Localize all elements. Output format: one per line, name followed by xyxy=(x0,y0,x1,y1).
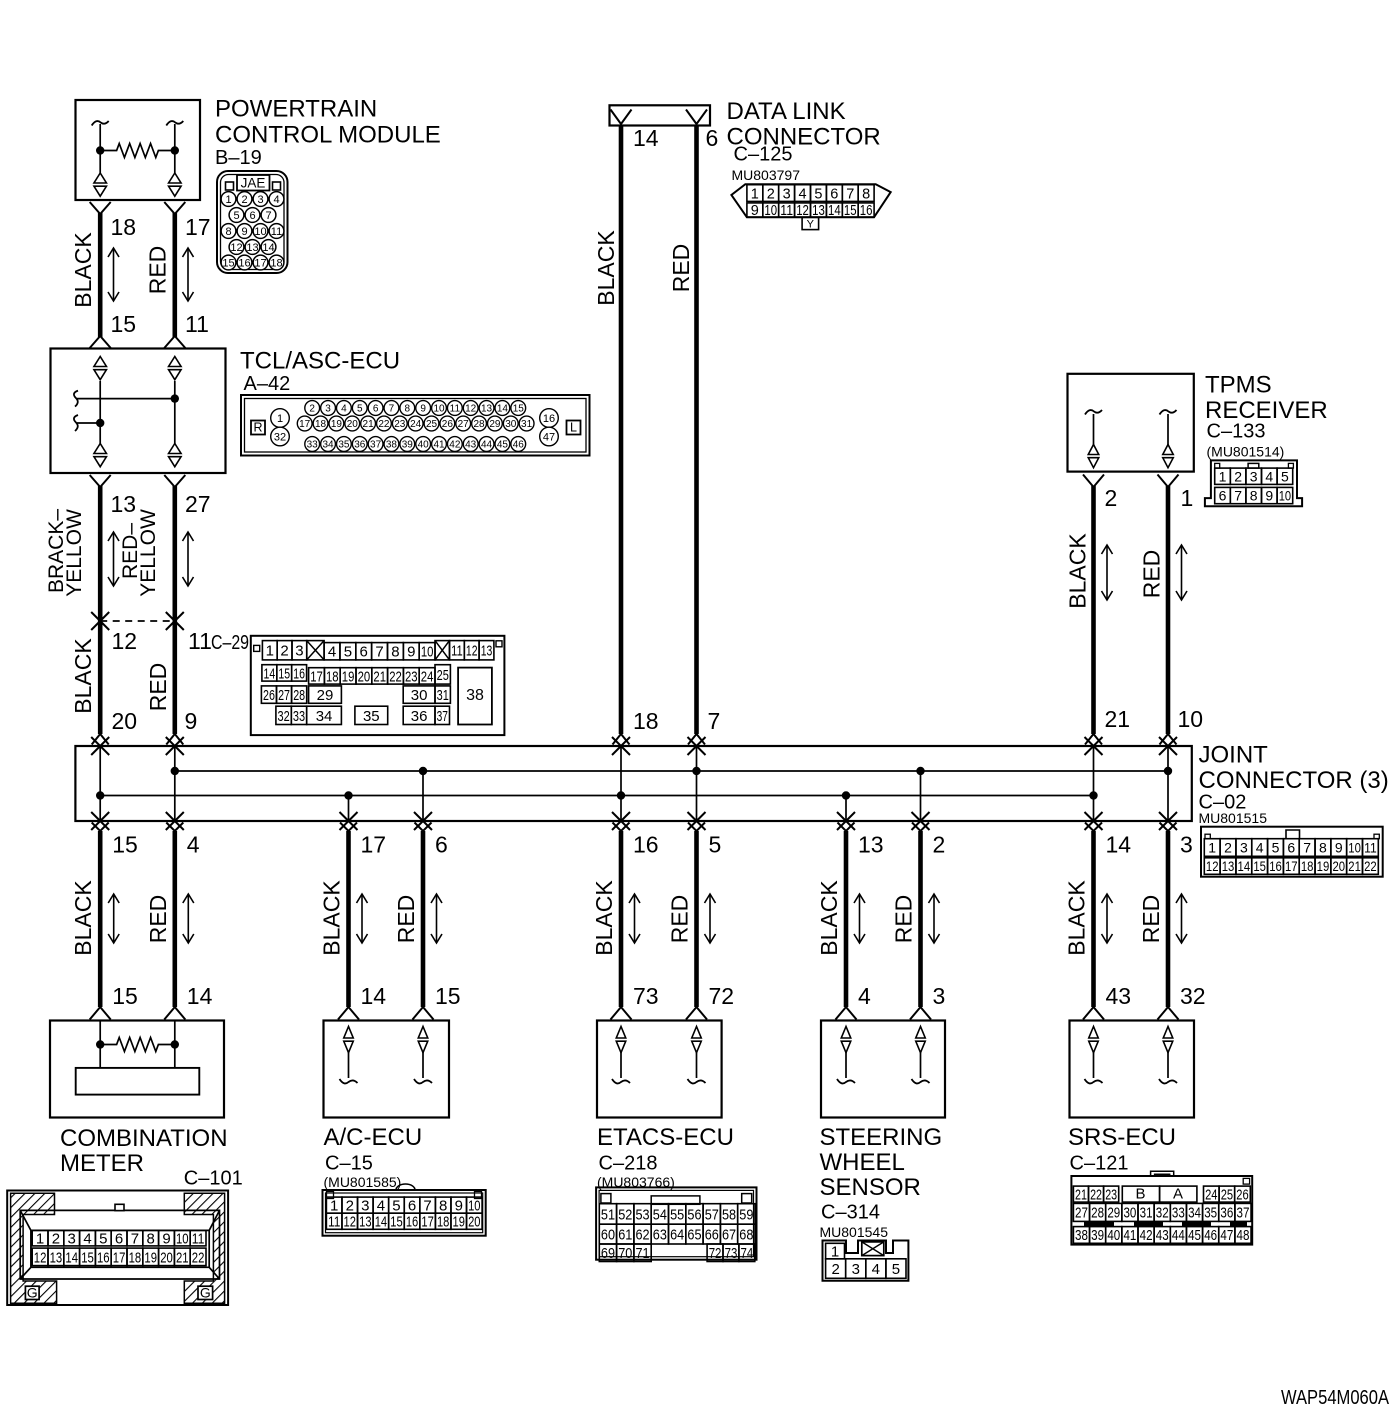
svg-text:33: 33 xyxy=(293,708,305,725)
svg-text:53: 53 xyxy=(636,1206,650,1223)
svg-text:BLACK: BLACK xyxy=(70,880,96,956)
terminating resistor (meter) xyxy=(96,1040,104,1048)
svg-text:67: 67 xyxy=(722,1227,736,1244)
svg-text:3: 3 xyxy=(295,643,303,660)
svg-text:70: 70 xyxy=(618,1245,632,1262)
svg-text:36: 36 xyxy=(1220,1206,1233,1222)
svg-text:28: 28 xyxy=(473,419,485,430)
svg-text:C–125: C–125 xyxy=(734,144,793,166)
svg-text:23: 23 xyxy=(394,419,406,430)
PCM internal terminal 17 xyxy=(166,121,183,126)
svg-text:15: 15 xyxy=(222,257,234,269)
svg-text:7: 7 xyxy=(708,708,721,734)
svg-text:5: 5 xyxy=(344,644,352,661)
svg-text:8: 8 xyxy=(1250,488,1258,504)
wire BLACK joint 17 to 14 xyxy=(340,823,357,832)
svg-text:DATA LINK: DATA LINK xyxy=(727,98,846,125)
svg-text:13: 13 xyxy=(111,491,137,517)
svg-text:9: 9 xyxy=(407,644,415,661)
svg-text:32: 32 xyxy=(1180,983,1206,1009)
svg-text:13: 13 xyxy=(359,1214,371,1231)
svg-text:17: 17 xyxy=(113,1249,126,1266)
svg-text:10: 10 xyxy=(468,1198,480,1215)
svg-text:12: 12 xyxy=(112,628,138,654)
DLC internal terminal 6 xyxy=(686,110,707,125)
svg-text:G: G xyxy=(200,1284,211,1300)
svg-text:37: 37 xyxy=(437,708,448,725)
svg-text:(MU801585): (MU801585) xyxy=(324,1174,402,1190)
svg-text:21: 21 xyxy=(1105,706,1131,732)
svg-text:8: 8 xyxy=(439,1198,447,1215)
svg-text:11: 11 xyxy=(271,226,282,238)
svg-text:21: 21 xyxy=(373,668,386,685)
svg-text:R: R xyxy=(253,421,262,435)
direction arrows xyxy=(854,894,865,943)
svg-text:MU801515: MU801515 xyxy=(1199,810,1268,826)
direction arrows xyxy=(108,894,119,943)
svg-text:12: 12 xyxy=(465,404,477,415)
svg-text:40: 40 xyxy=(418,440,430,451)
wire RED pin17 to pin11 xyxy=(164,202,185,214)
svg-text:4: 4 xyxy=(1256,840,1264,856)
svg-text:ETACS-ECU: ETACS-ECU xyxy=(597,1124,734,1151)
svg-text:JAE: JAE xyxy=(241,176,266,191)
svg-text:12: 12 xyxy=(466,643,478,660)
steering wheel sensor box xyxy=(821,1021,945,1118)
TPMS receiver C-133 box xyxy=(1068,374,1194,472)
svg-text:55: 55 xyxy=(670,1206,684,1223)
TCL bottom terminals xyxy=(94,444,107,454)
svg-text:5: 5 xyxy=(709,832,722,858)
connector drawing C-133 (10-pin) xyxy=(1205,460,1302,506)
svg-text:33: 33 xyxy=(307,440,319,451)
TCL/ASC-ECU A-42 box xyxy=(51,349,226,474)
svg-text:42: 42 xyxy=(449,440,461,451)
connector drawing C-101 (22-pin with shell) xyxy=(7,1191,228,1306)
svg-text:8: 8 xyxy=(405,404,411,415)
CAN bus line (upper / RED) xyxy=(175,770,1168,772)
svg-text:7: 7 xyxy=(131,1231,139,1248)
svg-text:5: 5 xyxy=(99,1231,107,1248)
svg-text:73: 73 xyxy=(633,983,659,1009)
svg-text:A: A xyxy=(1173,1186,1183,1203)
svg-text:L: L xyxy=(570,421,577,435)
svg-text:31: 31 xyxy=(521,419,533,430)
PCM internal terminal 18 xyxy=(92,121,109,126)
svg-text:39: 39 xyxy=(1091,1228,1104,1244)
svg-text:20: 20 xyxy=(347,419,359,430)
svg-text:21: 21 xyxy=(176,1249,189,1266)
svg-text:2: 2 xyxy=(933,832,946,858)
svg-text:17: 17 xyxy=(254,257,266,269)
svg-text:35: 35 xyxy=(363,708,380,725)
TCL internal terminal top-right xyxy=(169,357,182,367)
svg-text:JOINT: JOINT xyxy=(1199,742,1269,769)
svg-text:12: 12 xyxy=(1206,858,1219,874)
ETACS-ECU internal terminals xyxy=(616,1027,626,1039)
svg-text:19: 19 xyxy=(453,1214,465,1231)
svg-text:39: 39 xyxy=(402,440,414,451)
svg-text:1: 1 xyxy=(1181,485,1194,511)
svg-text:10: 10 xyxy=(764,203,777,219)
DLC internal terminal 14 xyxy=(611,110,632,125)
svg-text:13: 13 xyxy=(1222,858,1235,874)
svg-text:5: 5 xyxy=(892,1261,900,1278)
svg-text:15: 15 xyxy=(81,1249,94,1266)
svg-text:17: 17 xyxy=(185,214,211,240)
svg-text:4: 4 xyxy=(341,404,347,415)
svg-text:RED: RED xyxy=(393,895,419,944)
svg-text:8: 8 xyxy=(225,226,231,238)
direction arrow (pair 1 upper) xyxy=(108,248,119,301)
svg-text:57: 57 xyxy=(705,1206,719,1223)
svg-text:66: 66 xyxy=(705,1227,719,1244)
svg-text:16: 16 xyxy=(238,257,250,269)
svg-text:9: 9 xyxy=(1265,488,1273,504)
svg-text:2: 2 xyxy=(1224,840,1232,856)
svg-text:23: 23 xyxy=(405,668,418,685)
svg-text:45: 45 xyxy=(1188,1228,1201,1244)
svg-text:28: 28 xyxy=(293,687,305,704)
bus junction dots upper xyxy=(171,767,179,775)
svg-text:(MU801514): (MU801514) xyxy=(1207,444,1285,460)
svg-text:10: 10 xyxy=(1348,840,1361,856)
svg-text:2: 2 xyxy=(1234,468,1242,484)
svg-text:Y: Y xyxy=(807,218,815,230)
svg-text:19: 19 xyxy=(1317,858,1330,874)
svg-text:RED: RED xyxy=(145,246,171,295)
wire RED pin1 to joint 10 xyxy=(1158,475,1179,488)
connector drawing C-15 (20-pin) xyxy=(323,1190,486,1236)
svg-text:2: 2 xyxy=(767,186,775,202)
svg-text:BLACK: BLACK xyxy=(70,638,96,714)
svg-text:14: 14 xyxy=(1238,858,1251,874)
C-29 slot 38 xyxy=(458,668,492,725)
svg-text:5: 5 xyxy=(392,1198,400,1215)
svg-text:22: 22 xyxy=(378,419,390,430)
svg-text:15: 15 xyxy=(112,983,138,1009)
svg-text:8: 8 xyxy=(391,644,399,661)
svg-text:11: 11 xyxy=(192,1231,205,1248)
svg-text:6: 6 xyxy=(1287,840,1295,856)
svg-text:STEERING: STEERING xyxy=(820,1124,943,1151)
svg-text:4: 4 xyxy=(858,983,871,1009)
svg-text:44: 44 xyxy=(481,440,493,451)
wire RED pin6 to joint 7 xyxy=(694,126,699,735)
svg-text:11: 11 xyxy=(451,643,463,660)
svg-text:19: 19 xyxy=(342,668,355,685)
bus junction dots lower xyxy=(96,791,104,799)
svg-text:3: 3 xyxy=(783,186,791,202)
svg-text:RED: RED xyxy=(1139,550,1165,599)
svg-text:10: 10 xyxy=(254,226,266,238)
svg-text:46: 46 xyxy=(1204,1228,1217,1244)
svg-text:6: 6 xyxy=(249,210,255,222)
svg-text:29: 29 xyxy=(489,419,501,430)
svg-text:9: 9 xyxy=(751,203,759,219)
svg-text:1: 1 xyxy=(330,1198,338,1215)
svg-text:MU801545: MU801545 xyxy=(820,1224,889,1240)
svg-text:26: 26 xyxy=(442,419,454,430)
svg-text:20: 20 xyxy=(358,668,371,685)
svg-text:BLACK: BLACK xyxy=(1064,880,1090,956)
svg-text:62: 62 xyxy=(636,1227,650,1244)
svg-text:TPMS: TPMS xyxy=(1205,372,1272,399)
svg-text:35: 35 xyxy=(338,440,350,451)
direction arrow (pair 1 middle) xyxy=(108,532,119,586)
svg-text:14: 14 xyxy=(828,203,841,219)
TPMS internal terminal 2 xyxy=(1085,410,1102,415)
svg-text:15: 15 xyxy=(111,311,137,337)
svg-text:43: 43 xyxy=(465,440,477,451)
svg-text:24: 24 xyxy=(410,419,422,430)
connector drawing C-121 (48-pin) xyxy=(1071,1176,1252,1245)
svg-text:6: 6 xyxy=(360,644,368,661)
svg-text:2: 2 xyxy=(241,194,247,206)
svg-text:14: 14 xyxy=(65,1249,78,1266)
svg-text:WHEEL: WHEEL xyxy=(820,1149,905,1176)
svg-text:22: 22 xyxy=(389,668,402,685)
steering wheel sensor internal terminals xyxy=(841,1027,851,1039)
svg-text:4: 4 xyxy=(799,186,807,202)
wire BLACK pin2 to joint 21 xyxy=(1083,475,1104,488)
svg-text:G: G xyxy=(27,1284,38,1300)
svg-text:1: 1 xyxy=(277,413,283,425)
meter internal block xyxy=(76,1068,200,1095)
combination meter box xyxy=(50,1021,224,1118)
svg-text:3: 3 xyxy=(257,194,263,206)
svg-text:68: 68 xyxy=(739,1227,753,1244)
svg-text:56: 56 xyxy=(687,1206,701,1223)
svg-text:64: 64 xyxy=(670,1227,684,1244)
svg-text:RED: RED xyxy=(667,895,693,944)
svg-text:25: 25 xyxy=(426,419,438,430)
svg-text:8: 8 xyxy=(147,1231,155,1248)
svg-text:7: 7 xyxy=(389,404,395,415)
svg-text:18: 18 xyxy=(633,708,659,734)
connector drawing C-218 (74-pin) xyxy=(596,1187,756,1259)
svg-text:69: 69 xyxy=(601,1245,615,1262)
svg-text:16: 16 xyxy=(406,1214,418,1231)
svg-text:63: 63 xyxy=(653,1227,667,1244)
svg-text:2: 2 xyxy=(346,1198,354,1215)
svg-text:31: 31 xyxy=(437,687,449,704)
svg-text:10: 10 xyxy=(1178,706,1204,732)
svg-text:72: 72 xyxy=(709,1245,722,1262)
svg-text:10: 10 xyxy=(421,644,434,661)
svg-text:POWERTRAIN: POWERTRAIN xyxy=(215,96,377,123)
svg-text:43: 43 xyxy=(1156,1228,1169,1244)
svg-text:1: 1 xyxy=(36,1231,44,1248)
C-101 ground tab G right xyxy=(198,1286,213,1299)
C-101 shell body xyxy=(20,1210,219,1279)
svg-text:5: 5 xyxy=(233,210,239,222)
svg-text:4: 4 xyxy=(273,194,279,206)
svg-text:18: 18 xyxy=(326,668,339,685)
svg-text:30: 30 xyxy=(411,687,428,704)
svg-text:26: 26 xyxy=(263,687,275,704)
svg-text:18: 18 xyxy=(111,214,137,240)
svg-text:SRS-ECU: SRS-ECU xyxy=(1068,1124,1176,1151)
svg-text:20: 20 xyxy=(160,1249,173,1266)
svg-text:27: 27 xyxy=(185,491,211,517)
svg-text:7: 7 xyxy=(1303,840,1311,856)
wire BLACK pin18 to pin15 xyxy=(90,202,111,214)
svg-text:24: 24 xyxy=(1205,1187,1217,1203)
svg-text:5: 5 xyxy=(814,186,822,202)
svg-text:19: 19 xyxy=(144,1249,157,1266)
svg-text:40: 40 xyxy=(1107,1228,1120,1244)
svg-text:6: 6 xyxy=(435,832,448,858)
wire RED joint 2 to 3 xyxy=(912,823,929,832)
svg-text:20: 20 xyxy=(112,708,138,734)
svg-text:21: 21 xyxy=(363,419,375,430)
joint connector entry marks pair1 xyxy=(92,734,109,745)
svg-text:38: 38 xyxy=(386,440,398,451)
svg-text:2: 2 xyxy=(280,643,288,660)
svg-text:60: 60 xyxy=(601,1227,615,1244)
svg-text:18: 18 xyxy=(315,419,327,430)
svg-text:42: 42 xyxy=(1140,1228,1153,1244)
svg-text:27: 27 xyxy=(458,419,470,430)
svg-text:18: 18 xyxy=(270,257,282,269)
svg-text:34: 34 xyxy=(322,440,334,451)
svg-text:45: 45 xyxy=(497,440,509,451)
direction arrows xyxy=(357,894,368,943)
svg-text:9: 9 xyxy=(455,1198,463,1215)
joint connector (3) C-02 box xyxy=(75,746,1191,821)
svg-text:4: 4 xyxy=(187,832,200,858)
svg-text:14: 14 xyxy=(262,242,274,254)
svg-text:31: 31 xyxy=(1140,1206,1153,1222)
svg-text:32: 32 xyxy=(1156,1206,1169,1222)
svg-text:38: 38 xyxy=(1075,1228,1088,1244)
svg-text:10: 10 xyxy=(433,404,445,415)
svg-text:C–218: C–218 xyxy=(599,1153,658,1175)
svg-text:59: 59 xyxy=(739,1206,753,1223)
svg-text:6: 6 xyxy=(706,125,719,151)
svg-text:14: 14 xyxy=(187,983,213,1009)
svg-text:4: 4 xyxy=(83,1231,91,1248)
svg-text:41: 41 xyxy=(1123,1228,1136,1244)
svg-text:9: 9 xyxy=(185,708,198,734)
svg-text:2: 2 xyxy=(309,404,315,415)
svg-text:3: 3 xyxy=(1250,468,1258,484)
svg-text:4: 4 xyxy=(1265,468,1273,484)
svg-text:34: 34 xyxy=(316,708,333,725)
svg-text:16: 16 xyxy=(293,665,305,682)
svg-text:11: 11 xyxy=(188,628,212,654)
svg-text:C–101: C–101 xyxy=(184,1167,243,1189)
svg-text:3: 3 xyxy=(933,983,946,1009)
svg-text:4: 4 xyxy=(328,644,336,661)
svg-text:15: 15 xyxy=(513,404,525,415)
wire RED joint 3 to 32 xyxy=(1160,823,1177,832)
svg-text:13: 13 xyxy=(481,404,493,415)
svg-text:A/C-ECU: A/C-ECU xyxy=(324,1124,423,1151)
wire RED-YELLOW pin27 to pin11 xyxy=(164,475,185,487)
svg-text:7: 7 xyxy=(265,210,271,222)
svg-text:12: 12 xyxy=(344,1214,356,1231)
svg-text:48: 48 xyxy=(1237,1228,1250,1244)
svg-text:47: 47 xyxy=(1220,1228,1233,1244)
svg-text:23: 23 xyxy=(1105,1187,1117,1203)
svg-text:15: 15 xyxy=(112,832,138,858)
svg-text:11: 11 xyxy=(185,311,209,337)
svg-text:14: 14 xyxy=(497,404,509,415)
svg-text:7: 7 xyxy=(423,1198,431,1215)
terminating resistor (PCM) xyxy=(96,146,104,154)
wire BLACK joint 14 to 43 xyxy=(1085,823,1102,832)
svg-text:21: 21 xyxy=(1348,858,1361,874)
svg-text:7: 7 xyxy=(375,644,383,661)
svg-text:52: 52 xyxy=(618,1206,632,1223)
svg-text:BLACK: BLACK xyxy=(591,880,617,956)
svg-text:11: 11 xyxy=(328,1214,340,1231)
svg-text:18: 18 xyxy=(1301,858,1314,874)
svg-text:6: 6 xyxy=(408,1198,416,1215)
svg-text:15: 15 xyxy=(435,983,461,1009)
svg-text:20: 20 xyxy=(1332,858,1345,874)
ETACS-ECU box xyxy=(597,1021,722,1118)
intermediate connector C-29 crossing (dashed) xyxy=(91,612,109,630)
svg-text:32: 32 xyxy=(274,431,286,443)
svg-text:27: 27 xyxy=(278,687,290,704)
svg-text:MU803797: MU803797 xyxy=(732,167,801,183)
svg-text:21: 21 xyxy=(1075,1187,1087,1203)
svg-text:61: 61 xyxy=(618,1227,632,1244)
svg-text:47: 47 xyxy=(543,431,555,443)
svg-text:RED: RED xyxy=(668,244,694,293)
svg-text:37: 37 xyxy=(1237,1206,1250,1222)
svg-text:BLACK: BLACK xyxy=(593,230,619,306)
svg-text:10: 10 xyxy=(1279,488,1292,504)
svg-text:9: 9 xyxy=(420,404,426,415)
svg-text:13: 13 xyxy=(246,242,258,254)
svg-text:16: 16 xyxy=(860,203,873,219)
svg-text:36: 36 xyxy=(354,440,366,451)
joint connector internal wires xyxy=(99,746,101,821)
svg-text:CONNECTOR (3): CONNECTOR (3) xyxy=(1199,767,1389,794)
svg-text:5: 5 xyxy=(1281,468,1289,484)
svg-text:C–121: C–121 xyxy=(1070,1153,1129,1175)
connector drawing C-314 (5-pin) xyxy=(823,1241,909,1281)
svg-text:6: 6 xyxy=(373,404,379,415)
svg-text:16: 16 xyxy=(543,413,555,425)
svg-text:14: 14 xyxy=(375,1214,387,1231)
svg-text:32: 32 xyxy=(278,708,290,725)
svg-text:58: 58 xyxy=(722,1206,736,1223)
PCM terminal pins xyxy=(99,151,101,174)
SRS-ECU internal terminals xyxy=(1089,1027,1099,1039)
wire BLACK pin14 to joint 18 xyxy=(619,126,624,735)
wire RED joint 4 to 14 xyxy=(166,823,183,832)
svg-text:33: 33 xyxy=(1172,1206,1185,1222)
svg-text:RED: RED xyxy=(145,663,171,712)
C-125 key Y box xyxy=(802,217,819,229)
svg-text:41: 41 xyxy=(433,440,445,451)
svg-text:CONTROL MODULE: CONTROL MODULE xyxy=(215,122,441,149)
svg-text:14: 14 xyxy=(1106,832,1132,858)
svg-text:8: 8 xyxy=(862,186,870,202)
svg-text:15: 15 xyxy=(278,665,290,682)
svg-text:20: 20 xyxy=(468,1214,480,1231)
svg-text:6: 6 xyxy=(115,1231,123,1248)
C-101 ground tab G left xyxy=(25,1286,39,1299)
svg-text:YELLOW: YELLOW xyxy=(63,509,86,597)
TCL internal terminal top-left xyxy=(94,357,107,367)
svg-text:C–15: C–15 xyxy=(325,1153,373,1175)
